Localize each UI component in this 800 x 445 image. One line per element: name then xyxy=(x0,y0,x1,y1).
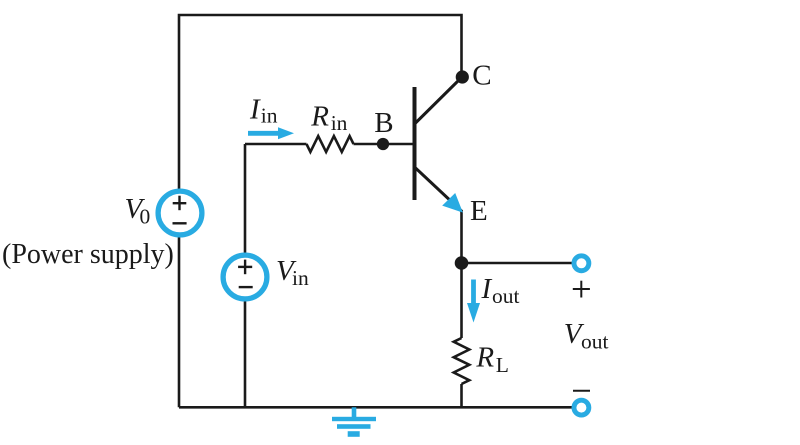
svg-text:C: C xyxy=(472,60,491,92)
svg-text:out: out xyxy=(581,330,609,354)
svg-text:in: in xyxy=(261,103,278,127)
svg-text:in: in xyxy=(331,111,348,135)
svg-text:0: 0 xyxy=(140,205,151,229)
svg-text:R: R xyxy=(475,342,494,374)
svg-text:out: out xyxy=(492,284,520,308)
svg-text:R: R xyxy=(310,100,329,132)
svg-text:in: in xyxy=(292,266,309,290)
svg-text:E: E xyxy=(470,195,488,227)
svg-text:I: I xyxy=(249,94,261,126)
svg-text:L: L xyxy=(496,353,509,377)
svg-text:(Power supply): (Power supply) xyxy=(2,239,174,270)
svg-text:B: B xyxy=(374,107,393,139)
svg-text:I: I xyxy=(481,273,493,305)
